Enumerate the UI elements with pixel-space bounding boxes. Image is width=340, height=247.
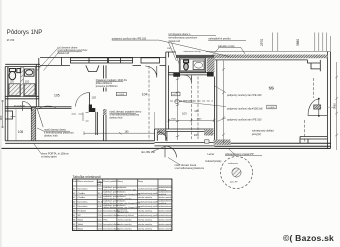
sliding pocket strip: [96, 112, 98, 135]
svg-text:vo farby tapiet: vo farby tapiet: [41, 155, 57, 158]
leader to rám annotation lower: [217, 118, 226, 122]
level box central: [171, 92, 180, 96]
annotation A1 tyč drevené dvere: [58, 46, 89, 55]
hatched corner vestibule left: [157, 129, 165, 135]
svg-text:Sklad: Sklad: [78, 228, 84, 230]
wc sink: [193, 61, 204, 70]
soakaway tiny texts: [228, 163, 239, 184]
svg-text:sadrokartónový podhľ: sadrokartónový podhľ: [138, 205, 158, 208]
svg-text:stierka omietka: stierka omietka: [159, 227, 174, 230]
svg-text:Kancelária: Kancelária: [78, 201, 89, 204]
annotation A3: [169, 33, 198, 43]
annotation nosič drevená stena (in room): [44, 129, 74, 138]
wall between bathrooms and room 105: [36, 58, 39, 107]
svg-text:Chodba: Chodba: [78, 193, 86, 195]
wall outer right: [327, 52, 330, 149]
svg-text:+0,000: +0,000: [268, 107, 276, 109]
annotation A4-A5 underlines: [208, 40, 246, 55]
svg-text:105: 105: [54, 94, 60, 98]
wall top central with two lines: [40, 57, 166, 65]
svg-text:stierka omietka: stierka omietka: [118, 219, 133, 222]
leader to rám annotation upper: [215, 86, 227, 93]
door arc wc block: [184, 75, 191, 82]
svg-text:Predsieň: Predsieň: [78, 210, 87, 213]
svg-text:Pôdorys 1NP: Pôdorys 1NP: [7, 29, 43, 36]
svg-text:vsakovacia: vsakovacia: [228, 163, 239, 165]
svg-text:sadrokartónový: sadrokartónový: [159, 205, 174, 208]
svg-text:dosiek tuď: dosiek tuď: [169, 40, 181, 43]
svg-text:jamy(pr): jamy(pr): [251, 133, 261, 136]
sill line right: [327, 106, 334, 108]
svg-text:sadrokartónový: sadrokartónový: [159, 214, 174, 217]
svg-text:mokraď prietky: mokraď prietky: [205, 160, 222, 163]
annotation nosič below leader: [168, 158, 180, 165]
right room annotation bottom: [251, 130, 274, 136]
shower tray cell1 hatched: [9, 84, 20, 96]
door frame line room 108: [15, 109, 17, 141]
svg-text:180: 180: [125, 131, 130, 134]
svg-text:sadrokartónový podhľ: sadrokartónový podhľ: [138, 201, 158, 204]
svg-text:stierka omietka: stierka omietka: [159, 223, 174, 226]
annotation osadené underline: [96, 81, 123, 83]
svg-text:Kancelária: Kancelária: [78, 205, 89, 208]
door 105 leaf: [89, 93, 91, 107]
washbasin cell2: [24, 69, 34, 76]
svg-text:stierka omietka: stierka omietka: [159, 196, 174, 199]
right room top wall inner: [214, 59, 308, 61]
svg-text:stierka omietka: stierka omietka: [138, 210, 153, 213]
dimension group top A: [273, 33, 278, 52]
window W1b central top: [109, 58, 133, 63]
wall bottom left section: [5, 141, 154, 144]
svg-text:WC: WC: [78, 215, 82, 217]
wall between 105 and 104 lower: [104, 109, 106, 141]
small dark mark right room: [269, 87, 274, 90]
svg-text:3965: 3965: [332, 103, 336, 109]
bathroom cells outline: [8, 67, 36, 96]
hatched wall divider bathrooms: [21, 67, 23, 96]
hatched wall room108 right: [31, 108, 36, 141]
window W2 central top: [141, 58, 160, 63]
dim line vertical wc section: [176, 77, 179, 141]
svg-text:podhľad: podhľad: [159, 203, 167, 205]
svg-text:90 1630 90: 90 1630 90: [14, 105, 26, 107]
svg-text:Ploc: Ploc: [98, 181, 102, 183]
svg-text:podhľad: podhľad: [159, 194, 167, 196]
svg-text:keramický obklad: keramický obklad: [118, 214, 135, 217]
annotation odkvap underline: [225, 148, 262, 155]
wall corridor bottom (above room 108): [6, 107, 72, 109]
svg-text:Chodba: Chodba: [78, 197, 86, 199]
annotation A1 underline and leader: [37, 49, 82, 71]
hatch wall 105-104 lower top: [103, 109, 106, 115]
annotation nosič below vestibule: [175, 164, 205, 170]
small box vestibule: [205, 140, 209, 143]
svg-text:+0,000: +0,000: [117, 94, 125, 96]
dim line right room left: [222, 61, 225, 144]
svg-text:doskou hub: doskou hub: [110, 116, 124, 119]
central dim line: [168, 119, 216, 123]
dashed axis lines central: [149, 66, 313, 143]
annotation rám leader: [152, 146, 166, 152]
svg-text:doskou hutb: doskou hutb: [44, 135, 58, 138]
svg-text:101: 101: [10, 79, 15, 83]
svg-text:stierka omietka: stierka omietka: [138, 227, 153, 230]
door tick room 108: [10, 115, 15, 117]
svg-text:Letná: Letná: [208, 153, 215, 156]
svg-text:105: 105: [194, 109, 199, 113]
right room left wall lower: [215, 60, 217, 143]
door notch trapezoid on top wall: [86, 65, 99, 71]
wall between 105 and 104 stub: [104, 88, 106, 92]
svg-text:stierka omietka: stierka omietka: [118, 227, 133, 230]
annotation dvere PORTA leader: [34, 143, 42, 153]
level box room 104: [116, 92, 126, 95]
window W1b mid line: [109, 58, 133, 63]
dim line horizontal room 104: [84, 132, 155, 136]
top wall dark band right section: [176, 55, 327, 58]
svg-text:ker. dlažba 8mm: ker. dlažba 8mm: [179, 99, 195, 102]
svg-text:obklad stien: obklad stien: [118, 211, 130, 214]
svg-text:stierka omietka: stierka omietka: [159, 219, 174, 222]
annotation nosič v room104: [110, 111, 142, 120]
svg-text:Sklad: Sklad: [78, 224, 84, 226]
annotation dvere PORTA below plan: [41, 152, 69, 158]
leader to stĺp annotation: [180, 102, 226, 107]
vestibule 106 left wall: [155, 129, 158, 141]
svg-text:1500: 1500: [197, 119, 203, 121]
black pier left of wc door: [173, 73, 180, 77]
annotation nosič underline leader: [37, 128, 70, 131]
vestibule 106 top line: [155, 129, 214, 132]
window W1 central top: [71, 58, 108, 63]
table rows text: [73, 186, 158, 230]
soakaway dashed circle: [221, 157, 253, 189]
svg-text:posuvne šír.500mm: posuvne šír.500mm: [96, 85, 118, 88]
dimension line left edge: [1, 100, 4, 128]
ground line full width: [2, 147, 331, 149]
svg-text:900: 900: [0, 115, 3, 120]
svg-text:M 1:50: M 1:50: [7, 39, 15, 42]
svg-text:Kancelária: Kancelária: [78, 187, 89, 190]
svg-text:sadrokartónový podhľ: sadrokartónový podhľ: [138, 192, 158, 195]
door arc vestibule: [158, 132, 168, 142]
scan edge shade left: [0, 0, 2, 247]
annotation A3 underline: [169, 36, 217, 66]
svg-text:obklad dlažba: obklad dlažba: [103, 207, 117, 209]
svg-text:102: 102: [25, 79, 30, 83]
svg-text:108: 108: [18, 130, 24, 134]
annotation A2 underline leader: [112, 40, 230, 57]
annotation nosič v room104 underline: [110, 112, 137, 114]
section dashes room 105: [72, 112, 89, 121]
door hinge dots: [318, 98, 320, 100]
door arc room104 top: [145, 66, 157, 78]
shower tray cell2 hatched: [24, 84, 35, 96]
door arc exterior bottom: [165, 146, 177, 158]
svg-text:sadrokartónový podhľ: sadrokartónový podhľ: [138, 214, 158, 217]
svg-text:2570: 2570: [260, 39, 264, 46]
svg-text:Tabuľka miestností: Tabuľka miestností: [73, 175, 101, 179]
vestibule upper line: [154, 112, 156, 129]
svg-text:stierka omietka: stierka omietka: [138, 223, 153, 226]
right room bottom inner ledge: [300, 137, 327, 144]
vestibule bottom wall dark: [155, 142, 215, 146]
svg-text:Strop: Strop: [138, 180, 144, 183]
svg-text:podperný oceľový rám IPE 160: podperný oceľový rám IPE 160: [227, 119, 262, 122]
svg-text:103: 103: [92, 95, 97, 99]
right room top-right notch: [308, 60, 321, 71]
right room bottom wall: [215, 143, 331, 146]
hatched wall right of wc block: [207, 58, 215, 72]
wc fixture toilet: [184, 60, 189, 70]
svg-text:PVC: PVC: [103, 220, 108, 222]
svg-text:+0,75: +0,75: [172, 94, 178, 96]
svg-text:odvetranie šachty: odvetranie šachty: [184, 50, 202, 53]
hatched corner vestibule right: [204, 129, 214, 136]
svg-text:Sklad: Sklad: [78, 220, 84, 222]
level box right room: [267, 105, 276, 109]
door leaf hatched right wall: [314, 105, 321, 109]
svg-text:sadrokartónový podhľ: sadrokartónový podhľ: [138, 187, 158, 190]
door swing room105 lower: [37, 106, 55, 127]
top wall jog at wc left: [166, 52, 176, 57]
table grid: [73, 179, 172, 231]
wall between 105 and 104 upper: [104, 65, 106, 78]
hatched band right of vestibule: [214, 140, 231, 145]
dimension line right edge: [335, 62, 338, 150]
svg-text:3880: 3880: [296, 39, 300, 46]
svg-text:podperný oceľový rám IPE 160: podperný oceľový rám IPE 160: [227, 94, 262, 97]
black pier below hatched wall: [207, 72, 214, 77]
door 105 arc: [76, 93, 90, 107]
svg-text:dosiek tuď: dosiek tuď: [58, 52, 70, 55]
svg-text:104: 104: [142, 93, 148, 97]
svg-text:Povrch podlahy: Povrch podlahy: [103, 180, 118, 183]
svg-text:podperný oceľový rám IPE 160: podperný oceľový rám IPE 160: [112, 37, 147, 40]
svg-text:s termofixovanej plastovou: s termofixovanej plastovou: [175, 167, 205, 170]
door arc right wall: [308, 99, 327, 116]
svg-text:podperný oceľový stĺp #108,3x: podperný oceľový stĺp #108,3x8: [227, 107, 263, 110]
svg-text:stierka omietka: stierka omietka: [138, 196, 153, 199]
svg-text:[m²]: [m²]: [98, 183, 102, 186]
small circle axis: [175, 99, 179, 103]
svg-text:103: 103: [182, 112, 187, 116]
svg-text:stierka omietka: stierka omietka: [138, 219, 153, 222]
top band hatch texture: [214, 55, 327, 59]
wc block inner line: [181, 59, 205, 71]
wc block box: [179, 58, 205, 72]
black pier at door 105: [89, 105, 96, 113]
wall outer left: [5, 67, 8, 141]
wc sink inner: [195, 62, 203, 68]
wall top central inner segments: [133, 64, 167, 66]
svg-text:Názov miestnosti: Názov miestnosti: [78, 180, 94, 183]
svg-text:©( Bazos.sk: ©( Bazos.sk: [283, 233, 334, 243]
wall top of bathroom block: [5, 64, 40, 66]
table header text: [73, 180, 144, 186]
wall 104 right side: [166, 57, 169, 140]
wall bathroom block bottom: [6, 96, 39, 99]
window W1 mullions: [62, 57, 108, 65]
annotation osadené preglejky: [96, 79, 127, 88]
wall below wc piers base: [168, 73, 207, 75]
dimension group C: [315, 33, 331, 52]
svg-text:stierka omietka: stierka omietka: [118, 223, 133, 226]
svg-text:jama PP: jama PP: [229, 182, 238, 184]
svg-text:stierka omietka: stierka omietka: [159, 210, 174, 213]
svg-text:106: 106: [194, 133, 199, 137]
svg-text:1500: 1500: [171, 119, 177, 121]
wall left notch: [5, 111, 12, 119]
door arc corridor 103: [23, 102, 33, 112]
toilet cell1: [9, 69, 20, 80]
right room top wall outer: [206, 51, 331, 53]
soakaway inner hatched circle: [232, 168, 241, 177]
